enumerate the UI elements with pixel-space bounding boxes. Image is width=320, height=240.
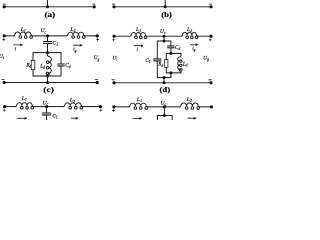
circuit (c) right bottom terminal <box>96 81 99 84</box>
wire: (b) center shunt stub <box>164 0 166 7</box>
plus polarity mark (c) left <box>3 39 5 41</box>
current arrow ig (e) <box>71 117 76 119</box>
current arrow ig (f) <box>188 117 195 119</box>
wire: right branch down (f) <box>171 116 173 121</box>
node: bottom rail junction (c) <box>46 81 49 84</box>
inductor Ld (c) vertical <box>47 53 49 56</box>
circuit (d) left bottom terminal <box>112 81 115 84</box>
minus polarity mark (b) left <box>112 3 115 5</box>
circuit (d) left top terminal <box>112 35 115 38</box>
svg-text:Ug: Ug <box>203 55 209 61</box>
node Uc (d) <box>163 35 166 38</box>
wire: L1 to node Uc (e) <box>34 106 64 108</box>
wire: L2 to right terminal (f) <box>200 106 212 108</box>
circuit (c) left bottom terminal <box>3 81 6 84</box>
wire: tee bar (d) <box>157 40 171 42</box>
current arrow ig (d) <box>191 44 197 46</box>
circuit (d) bottom rail wire <box>114 82 211 84</box>
node: (a) shunt junction <box>46 5 49 8</box>
wire: C1 to damping box (c) <box>47 44 49 53</box>
current arrow i (d) <box>134 45 142 47</box>
wire: Uc stub down (f) <box>163 107 165 116</box>
svg-text:C1: C1 <box>52 113 57 119</box>
plus polarity mark (d) right <box>209 39 211 41</box>
svg-text:i: i <box>14 46 16 52</box>
wire: L2 to right terminal (c) <box>85 35 97 37</box>
node: jog junction (d) <box>163 76 166 79</box>
svg-text:Uc: Uc <box>160 100 166 106</box>
node: box top entry (d) <box>169 52 172 55</box>
wire: box top edge (d) <box>166 52 181 54</box>
svg-text:L1: L1 <box>136 97 142 103</box>
wire: Uc stub to C1 (e) <box>46 107 48 113</box>
capacitor C1 (d) <box>154 58 161 60</box>
wire: C1 branch lower lead (d) <box>156 61 158 78</box>
circuit (e) top rail left segment <box>5 106 16 108</box>
minus polarity mark (d) left <box>112 79 115 81</box>
svg-text:Uc: Uc <box>160 29 166 35</box>
wire: box bottom to bottom rail (c) <box>47 76 49 83</box>
plus polarity mark (e) right <box>100 109 102 111</box>
inductor L1 (c) <box>14 32 33 36</box>
wire: Cd to box top (d) <box>170 48 172 54</box>
node: damping tee (d) <box>163 40 166 43</box>
inductor L2 (c) <box>67 32 86 36</box>
capacitor C1 (e) <box>42 112 50 114</box>
wire: L2 to right terminal (d) <box>198 35 211 37</box>
inductor L1 (e) <box>15 103 33 107</box>
node: damping box top (c) <box>46 51 49 54</box>
svg-text:Uc: Uc <box>40 28 46 34</box>
wire: node Uc down to C1 (c) <box>47 36 49 42</box>
wire: L1 to node Uc (c) <box>32 35 66 37</box>
inductor L1 (f) <box>129 103 148 107</box>
wire: left branch down (f) <box>157 116 159 121</box>
svg-text:Ui: Ui <box>0 54 4 60</box>
svg-text:i: i <box>136 47 138 53</box>
svg-text:Ld: Ld <box>182 62 188 67</box>
plus polarity mark (d) left <box>112 39 114 41</box>
inductor L1 (d) <box>130 32 147 36</box>
svg-text:L2: L2 <box>69 27 75 33</box>
wire: L2 to right terminal (e) <box>83 106 101 108</box>
svg-text:ig: ig <box>73 48 76 53</box>
svg-text:(b): (b) <box>161 10 172 19</box>
svg-text:Rd: Rd <box>157 63 163 68</box>
wire: lower jog bar (d) <box>157 77 171 79</box>
circuit (a) right bottom terminal <box>93 5 96 8</box>
svg-text:L2: L2 <box>69 98 75 104</box>
svg-text:ig: ig <box>192 47 195 52</box>
capacitor Cd plates (c) <box>58 63 65 65</box>
inductor L2 (f) <box>180 103 200 107</box>
svg-text:(a): (a) <box>45 10 56 19</box>
wire: jog to bottom rail (d) <box>163 78 165 83</box>
svg-text:(c): (c) <box>43 85 54 94</box>
svg-text:Cd: Cd <box>175 45 180 51</box>
minus polarity mark (a) right <box>93 3 96 5</box>
wire: L1 to node Uc (d) <box>147 35 182 37</box>
svg-text:L1: L1 <box>21 96 27 102</box>
svg-text:(d): (d) <box>160 85 171 94</box>
current arrow i (c) <box>14 44 21 46</box>
wire: damping box bottom edge (c) <box>33 75 61 77</box>
svg-text:L1: L1 <box>135 27 141 33</box>
inductor L2 (e) <box>63 103 82 107</box>
plus polarity mark (e) left <box>3 109 5 111</box>
svg-text:Cd: Cd <box>65 63 70 69</box>
minus polarity mark (c) left <box>2 79 5 81</box>
circuit (f) top rail left segment <box>114 106 129 108</box>
node: damping box bottom (c) <box>46 75 49 78</box>
circuit (e) right top terminal <box>99 105 102 108</box>
circuit (b) bottom rail wire <box>114 6 211 8</box>
svg-text:Rd: Rd <box>25 62 31 68</box>
wire: C1 branch upper lead (d) <box>156 41 158 59</box>
wire: node Uc stub down (d) <box>163 36 165 41</box>
resistor Rd body (d) <box>165 60 168 68</box>
svg-text:Ug: Ug <box>94 55 100 61</box>
svg-text:C1: C1 <box>145 58 150 64</box>
node Uc (c) <box>46 34 49 37</box>
svg-text:Ld: Ld <box>39 63 45 69</box>
inductor L2 (d) <box>181 32 198 36</box>
inductor Ld (d) vertical on right edge <box>180 53 182 55</box>
circuit (f) left top terminal <box>112 105 115 108</box>
capacitor Cd (d) <box>168 45 175 47</box>
svg-text:L2: L2 <box>186 27 192 33</box>
wire: tee bar (f) <box>158 115 173 117</box>
current arrow i (e) <box>17 117 25 119</box>
circuit (c) bottom rail wire <box>4 82 97 84</box>
circuit (c) top rail left wire segment <box>4 35 14 37</box>
resistor Rd (c): left branch leads <box>32 53 34 61</box>
wire: box bottom stub to jog bar (d) <box>170 73 172 78</box>
svg-text:L2: L2 <box>186 97 192 103</box>
plus polarity mark (f) left <box>112 110 114 112</box>
wire: (a) center shunt stub <box>47 0 49 7</box>
minus polarity mark (a) left <box>3 3 6 5</box>
circuit (d) right bottom terminal <box>209 81 212 84</box>
svg-text:C1: C1 <box>52 41 58 47</box>
svg-text:Ui: Ui <box>112 55 117 61</box>
resistor Rd (d): leads on left edge <box>165 53 167 59</box>
minus polarity mark (d) right <box>209 79 212 81</box>
circuit (d) right top terminal <box>209 35 212 38</box>
minus polarity mark (c) right <box>95 79 98 81</box>
minus polarity mark (b) right <box>209 3 212 5</box>
node Uc (f) <box>163 105 166 108</box>
plus polarity mark (c) right <box>96 39 98 41</box>
svg-text:Uc: Uc <box>42 100 48 106</box>
current arrow ig (c) <box>74 44 81 46</box>
wire: damping box outline top edge (c) <box>33 52 61 54</box>
circuit (c) left top terminal <box>3 34 6 37</box>
node Uc (e) <box>45 105 48 108</box>
wire: Cd branch upper lead (d) <box>170 41 172 46</box>
capacitor C1 (c) <box>43 41 51 43</box>
node: box bottom exit (d) <box>169 71 172 74</box>
resistor Rd body (c) <box>31 60 35 69</box>
svg-text:L1: L1 <box>20 27 26 33</box>
circuit (c) right top terminal <box>96 34 99 37</box>
node: (b) shunt junction <box>164 5 167 8</box>
wire: box bottom edge (d) <box>166 72 181 74</box>
current arrow i (f) <box>133 117 140 119</box>
circuit (e) left top terminal <box>3 105 6 108</box>
wire: L1 to node Uc (f) <box>148 106 180 108</box>
capacitor Cd (c): right branch leads <box>60 53 62 64</box>
wire: C1 lower lead (e) <box>46 115 48 120</box>
circuit (f) right top terminal <box>210 105 213 108</box>
node: damping tee (f) <box>163 114 166 117</box>
circuit (b) left bottom terminal <box>112 5 115 8</box>
circuit (b) right bottom terminal <box>209 5 212 8</box>
node: bottom rail junction (d) <box>163 81 166 84</box>
circuit (a) left bottom terminal <box>3 5 6 8</box>
circuit (d) top rail left wire segment <box>114 35 131 37</box>
circuit (a) bottom rail wire <box>4 6 94 8</box>
